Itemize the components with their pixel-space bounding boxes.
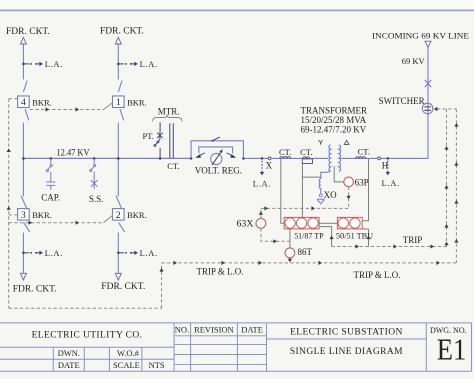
svg-text:BKR.: BKR. xyxy=(127,210,147,220)
disconnect slash below BKR2 xyxy=(119,223,125,232)
wire feeder1 vertical upper xyxy=(22,44,24,158)
svg-text:NO.: NO. xyxy=(175,325,189,335)
svg-text:4: 4 xyxy=(21,98,26,108)
disconnect slash above BKR3 xyxy=(21,196,26,208)
svg-text:REVISION: REVISION xyxy=(194,325,234,335)
svg-text:L.A.: L.A. xyxy=(382,178,400,188)
dashed row2 run to BKR2 xyxy=(9,222,104,224)
feeder arrow down 3 xyxy=(20,273,26,280)
H side open circle xyxy=(378,157,381,160)
svg-text:69-12.47/7.20 KV: 69-12.47/7.20 KV xyxy=(301,125,367,135)
dashed 63X riser xyxy=(260,208,262,218)
breaker 1 box xyxy=(113,96,147,108)
svg-text:PT.: PT. xyxy=(143,131,154,141)
incoming arrow xyxy=(425,41,431,47)
69kv line disconnect X xyxy=(425,80,432,87)
disconnect slash above BKR1 xyxy=(118,81,122,92)
relay 63P xyxy=(344,177,354,187)
relay 86T xyxy=(289,229,291,248)
wire feeder4 vertical lower xyxy=(117,158,119,273)
svg-text:SINGLE LINE DIAGRAM: SINGLE LINE DIAGRAM xyxy=(290,347,403,357)
arrows 63P-63X line xyxy=(264,206,268,210)
XO ground xyxy=(317,199,325,204)
feeder arrow down 4 xyxy=(115,273,121,280)
svg-text:51/87 TP: 51/87 TP xyxy=(294,231,324,240)
PT branch xyxy=(154,122,163,158)
relay 63X xyxy=(256,219,266,229)
arrows trip line xyxy=(355,244,359,248)
arrow 63P drop down xyxy=(347,196,351,200)
wye winding neutral lead xyxy=(321,171,331,179)
XO bushing circle xyxy=(319,194,322,197)
transformer wye winding xyxy=(329,145,331,171)
wire 12.47KV bus xyxy=(23,157,191,159)
bus junction dots xyxy=(22,157,245,160)
feeder arrow up 2 xyxy=(115,37,121,44)
relay box 51/87 TP xyxy=(284,217,319,229)
metering CT double bars xyxy=(170,123,174,158)
svg-text:ELECTRIC UTILITY CO.: ELECTRIC UTILITY CO. xyxy=(32,331,143,341)
svg-text:XO: XO xyxy=(324,190,337,200)
svg-text:TRIP & L.O.: TRIP & L.O. xyxy=(197,266,244,276)
arrows row1 xyxy=(46,107,50,111)
breaker 2 box xyxy=(113,209,147,221)
svg-text:BKR.: BKR. xyxy=(32,210,52,220)
svg-text:CT.: CT. xyxy=(358,146,370,156)
svg-text:L.A.: L.A. xyxy=(140,248,158,258)
svg-text:12.47 KV: 12.47 KV xyxy=(57,147,90,157)
svg-text:FDR. CKT.: FDR. CKT. xyxy=(101,282,145,292)
dashed switcher trip lead xyxy=(437,108,456,110)
svg-text:L.A.: L.A. xyxy=(140,59,158,69)
LA tap feeder2 xyxy=(117,62,138,66)
dashed 86T drop xyxy=(289,258,291,263)
link 51/87 to 50/51 xyxy=(319,222,337,224)
wire feeder2 vertical upper xyxy=(117,44,119,158)
voltreg inner loop xyxy=(199,147,233,153)
svg-text:W.O.#: W.O.# xyxy=(117,348,140,358)
svg-text:3: 3 xyxy=(21,211,26,221)
svg-text:CT.: CT. xyxy=(167,161,179,171)
svg-text:SWITCHER: SWITCHER xyxy=(379,96,425,106)
CT2 X-side bushing xyxy=(302,157,312,164)
MTR brace xyxy=(153,116,182,122)
relay box 50/51 TBU xyxy=(337,217,362,229)
svg-text:DWN.: DWN. xyxy=(58,348,80,358)
dashed riser to trip-lo xyxy=(161,263,163,308)
dashed bottom run xyxy=(9,307,162,309)
switcher circle xyxy=(422,103,433,114)
svg-text:L.A.: L.A. xyxy=(45,59,63,69)
svg-text:FDR. CKT.: FDR. CKT. xyxy=(13,285,57,295)
svg-text:SCALE: SCALE xyxy=(113,360,140,370)
X side open circle xyxy=(268,157,271,160)
LA tap feeder4 xyxy=(117,251,138,255)
breaker 4 box xyxy=(18,96,52,108)
CT3 H-side xyxy=(356,157,366,159)
dashed row1 stub to BKR4 xyxy=(9,98,18,100)
svg-text:ELECTRIC SUBSTATION: ELECTRIC SUBSTATION xyxy=(290,327,403,337)
svg-text:VOLT. REG.: VOLT. REG. xyxy=(195,166,242,176)
feeder arrow up 1 xyxy=(20,37,26,44)
arrow 50/51 drop up xyxy=(366,236,370,240)
disconnect slash above BKR4 xyxy=(24,81,28,92)
title block xyxy=(0,323,472,371)
svg-text:TRIP: TRIP xyxy=(403,235,423,245)
svg-text:FDR. CKT.: FDR. CKT. xyxy=(6,27,50,37)
link 51/87 to trip bus xyxy=(319,227,332,247)
svg-text:S.S.: S.S. xyxy=(89,194,104,204)
dashed row1 run to BKR1 xyxy=(30,109,104,111)
voltreg arrow xyxy=(212,149,223,165)
svg-text:NTS: NTS xyxy=(149,360,165,370)
svg-text:1: 1 xyxy=(116,98,121,108)
H tap xyxy=(386,157,390,175)
arrow 86T drop down xyxy=(288,259,292,263)
svg-text:69 KV: 69 KV xyxy=(402,56,426,66)
svg-text:15/20/25/28 MVA: 15/20/25/28 MVA xyxy=(301,115,367,125)
arrows trip-lo line xyxy=(173,261,177,265)
dashed hook to BKR1 xyxy=(104,103,113,110)
disconnect slash above BKR2 xyxy=(116,196,121,208)
svg-text:L.A.: L.A. xyxy=(253,179,271,189)
svg-text:E1: E1 xyxy=(437,331,467,366)
disconnect slash below BKR4 xyxy=(25,110,29,121)
svg-text:CT.: CT. xyxy=(279,147,291,157)
LA tap feeder1 xyxy=(22,62,43,66)
arrow 51/87 drop up xyxy=(330,236,334,240)
tank lead to 63P xyxy=(334,166,344,182)
arrow 63X riser up xyxy=(259,211,263,215)
breaker 3 box xyxy=(18,209,52,221)
arrow 63X drop right xyxy=(273,239,277,243)
svg-text:L.A.: L.A. xyxy=(45,248,63,258)
wye symbol xyxy=(319,140,323,145)
dashed row2 stub to BKR3 xyxy=(9,214,18,216)
arrows outer rail xyxy=(454,123,458,127)
wire feeder3 vertical lower xyxy=(22,158,24,273)
CT3 secondary lead xyxy=(362,158,368,246)
voltreg right disconnect arrow xyxy=(227,153,237,158)
dashed TRIP line xyxy=(332,246,447,248)
dashed TRIP and LO line xyxy=(162,262,457,264)
svg-text:FDR. CKT.: FDR. CKT. xyxy=(100,27,144,37)
delta symbol xyxy=(344,140,349,144)
svg-text:X: X xyxy=(266,161,273,171)
svg-text:63X: 63X xyxy=(237,218,255,228)
svg-text:86T: 86T xyxy=(298,247,313,257)
dashed 63P drop xyxy=(348,187,350,209)
arrows inner rail xyxy=(444,146,448,150)
svg-text:INCOMING 69 KV LINE: INCOMING 69 KV LINE xyxy=(372,31,469,41)
svg-text:DATE: DATE xyxy=(58,360,80,370)
capacitor branch xyxy=(46,158,55,189)
transformer delta winding xyxy=(339,145,341,171)
XO grounding coil xyxy=(319,179,321,194)
wire 69kv riser xyxy=(427,47,429,158)
voltreg circle xyxy=(211,153,222,164)
wire transformer to 69kv corner xyxy=(341,157,428,159)
LA tap feeder3 xyxy=(22,251,43,255)
arrows row2 xyxy=(29,221,33,225)
svg-text:CT.: CT. xyxy=(300,147,312,157)
wire main line voltreg to transformer xyxy=(243,157,328,159)
svg-text:DATE: DATE xyxy=(241,325,263,335)
voltreg left disconnect arrow xyxy=(195,153,205,158)
svg-text:63P: 63P xyxy=(355,177,369,187)
bypass switch blade xyxy=(211,137,219,142)
svg-text:CAP.: CAP. xyxy=(41,193,60,203)
svg-text:TRIP & L.O.: TRIP & L.O. xyxy=(354,270,401,280)
dashed 63P to 63X line xyxy=(261,207,349,209)
CT2 secondary lead xyxy=(301,164,303,218)
station service branch xyxy=(90,158,98,189)
svg-text:MTR.: MTR. xyxy=(158,106,180,116)
CT1 X-side xyxy=(280,157,291,159)
dashed hook to BKR2 xyxy=(104,216,113,223)
svg-text:2: 2 xyxy=(116,211,121,221)
X tap xyxy=(260,157,264,175)
dashed inner right rail xyxy=(446,109,448,247)
disconnect slash below BKR1 xyxy=(120,110,124,121)
arrow switcher lead xyxy=(434,107,438,111)
arrows left rail xyxy=(7,148,11,152)
dashed left rail xyxy=(8,99,10,309)
border top line xyxy=(0,9,474,11)
svg-text:BKR.: BKR. xyxy=(127,97,147,107)
voltage regulator bypass outer loop xyxy=(191,141,243,159)
CT1 secondary lead xyxy=(281,158,284,223)
dashed outer right rail xyxy=(455,109,457,263)
CT2 branch to neutral xyxy=(302,176,320,178)
svg-text:H: H xyxy=(382,160,389,170)
arrow riser xyxy=(159,268,163,272)
disconnect slash below BKR3 xyxy=(24,223,30,232)
svg-text:BKR.: BKR. xyxy=(32,97,52,107)
dashed 63X drop xyxy=(261,228,290,241)
